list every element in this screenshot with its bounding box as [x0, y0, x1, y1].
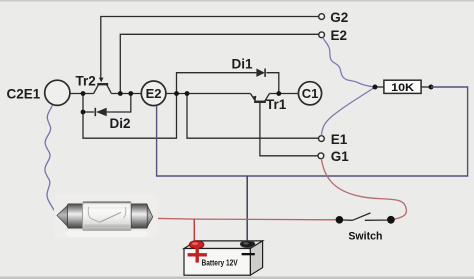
wire Di1 loop [177, 73, 257, 94]
wire node B to right edge loop (dark slate) [157, 87, 468, 176]
switch [336, 213, 395, 224]
junction node E1 branch [185, 91, 190, 96]
svg-text:C1: C1 [302, 86, 319, 101]
junction node E2-line vertical [118, 91, 123, 96]
wire battery positive drop (red) [193, 219, 195, 242]
battery [184, 241, 263, 276]
transistor Tr1 [250, 94, 269, 102]
svg-text:G1: G1 [331, 149, 350, 164]
terminal G1 [318, 153, 324, 159]
wire G1 terminal to switch (red) [321, 159, 406, 220]
svg-text:Tr1: Tr1 [266, 97, 287, 112]
gate arrow into Tr2 [99, 78, 104, 83]
lamp (festoon bulb) [57, 202, 153, 231]
probe C1 [298, 82, 321, 105]
wire E1 branch [187, 94, 319, 139]
svg-text:Tr2: Tr2 [76, 73, 96, 88]
svg-text:Battery 12V: Battery 12V [202, 259, 239, 268]
junction node Di2 anode [81, 110, 86, 115]
junction node Di2 cathode leg [128, 91, 133, 96]
terminal E2 [319, 32, 325, 38]
junction node Di1 anode leg [174, 91, 179, 96]
battery positive terminal [189, 241, 204, 249]
svg-text:E2: E2 [331, 28, 348, 43]
wire node A to resistor [375, 86, 384, 88]
battery plus sign [188, 248, 207, 263]
transistor Tr2 [94, 84, 112, 93]
terminal E1 [319, 136, 325, 142]
svg-text:Di2: Di2 [110, 116, 131, 131]
resistor 10K [384, 80, 421, 94]
diode Di2 [95, 108, 106, 116]
svg-text:10K: 10K [391, 82, 414, 94]
junction node on main rail at bypass left [81, 91, 86, 96]
emitter arrow Tr1 [252, 96, 257, 101]
wire Di2 cathode segment [107, 94, 131, 113]
wire E2 terminal to node A (blue) [323, 38, 375, 87]
svg-text:E2: E2 [146, 86, 162, 101]
wire E2 top line [120, 34, 318, 93]
svg-text:C2E1: C2E1 [7, 87, 41, 102]
wire battery negative drop [246, 176, 248, 241]
wire Tr1 to C1 segment [270, 93, 299, 95]
svg-text:G2: G2 [330, 10, 348, 25]
node B [429, 85, 434, 90]
battery minus sign [242, 253, 255, 255]
wire main rail left segment [70, 93, 94, 95]
wire Di2 anode segment [83, 94, 94, 113]
wire lamp to switch (red bus) [152, 218, 336, 220]
wire resistor to node B [421, 86, 431, 88]
probe E2 [141, 81, 166, 106]
junction node Di1 cathode leg [276, 91, 281, 96]
wire Di1 cathode side [266, 73, 278, 94]
svg-text:E1: E1 [331, 132, 348, 147]
wire E2 probe to Tr1 segment [166, 93, 251, 95]
diode Di1 [256, 69, 265, 77]
lamp photo backdrop [54, 194, 158, 238]
wire G2 top line [101, 17, 319, 79]
wire node A to E1 terminal (blue) [321, 87, 375, 136]
wire main rail middle segment [111, 93, 141, 95]
node A [373, 85, 378, 90]
wire outer bypass loop [83, 94, 177, 139]
probe C2E1 [45, 80, 70, 105]
svg-text:Di1: Di1 [232, 57, 254, 72]
svg-text:Switch: Switch [348, 231, 382, 243]
wire G1 branch from Tr1 base [260, 103, 318, 156]
wire C2E1 to lamp (blue wavy) [45, 105, 57, 215]
battery negative terminal [240, 241, 254, 248]
terminal G2 [319, 14, 325, 20]
